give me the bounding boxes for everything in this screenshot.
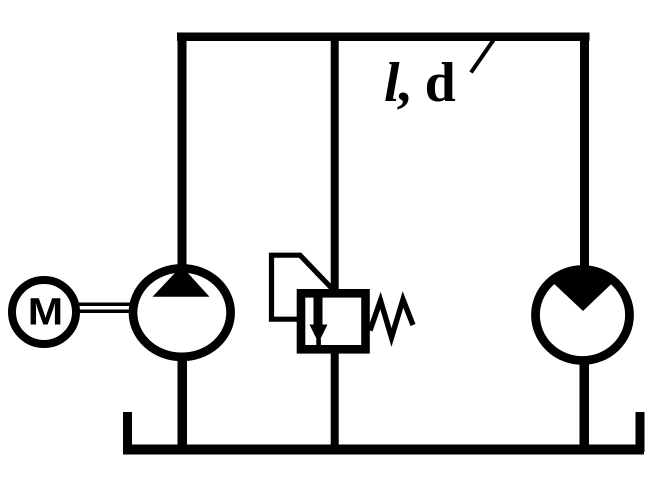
- hydraulic motor triangle (filled top cap, apex down): [550, 266, 617, 311]
- pump P1 circle: [133, 268, 231, 357]
- svg-text:l, d: l, d: [384, 52, 456, 114]
- wire top horizontal: [177, 33, 590, 42]
- svg-text:M: M: [28, 290, 63, 333]
- tank left wall: [123, 412, 132, 452]
- hydraulic motor circle: [536, 270, 630, 361]
- tank right wall: [636, 412, 645, 452]
- relief valve pilot line: [272, 255, 332, 319]
- relief valve spring: [370, 300, 413, 338]
- wire middle vertical lower (valve to tank): [331, 350, 339, 450]
- wire left vertical upper: [178, 33, 187, 269]
- pump P1 triangle: [153, 266, 210, 297]
- relief valve arrow shaft: [314, 296, 323, 326]
- wire left vertical lower (pump to tank): [178, 357, 188, 450]
- electric motor M circle: [12, 280, 76, 344]
- relief valve body: [301, 293, 366, 349]
- leader line (prime slash): [471, 40, 494, 73]
- wire middle vertical upper: [331, 33, 339, 291]
- wire right vertical upper: [580, 33, 589, 271]
- relief valve arrowhead: [310, 325, 328, 344]
- tank bottom: [123, 445, 644, 455]
- shaft double line: [74, 303, 133, 307]
- relief valve arrow tip stub: [316, 339, 321, 348]
- wire right vertical lower (motor to tank): [580, 360, 590, 450]
